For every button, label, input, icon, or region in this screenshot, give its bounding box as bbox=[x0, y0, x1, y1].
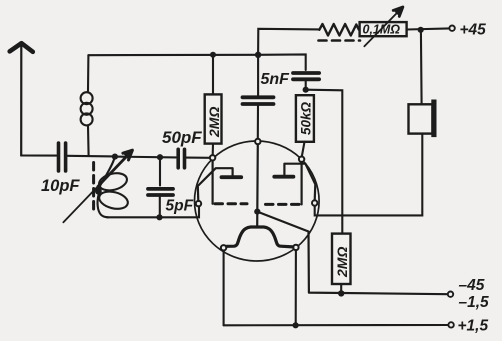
anode2 plate bbox=[274, 175, 293, 179]
terminal +1.5 bbox=[448, 322, 453, 327]
resistor 50k bbox=[296, 95, 314, 156]
node 2M/rail bbox=[338, 290, 344, 296]
svg-text:+1,5: +1,5 bbox=[458, 318, 489, 335]
node 5pF top bbox=[157, 154, 163, 160]
cathode stem bbox=[256, 212, 258, 228]
node center top bbox=[255, 52, 261, 58]
svg-text:10pF: 10pF bbox=[41, 177, 80, 195]
wire main to 50pF bbox=[115, 156, 176, 159]
capacitor 5nF bbox=[293, 73, 319, 90]
cathode lead left bbox=[223, 251, 225, 326]
tube envelope bbox=[194, 141, 319, 261]
pin g1 bbox=[210, 155, 215, 160]
resistor 0.1M zigzag bbox=[319, 24, 359, 36]
wire center vertical up bbox=[258, 29, 319, 55]
wire to speaker bbox=[420, 30, 423, 104]
grid2 lead bbox=[301, 162, 303, 204]
dashed under zigzag bbox=[319, 39, 361, 42]
wire box to +45 bbox=[407, 28, 450, 29]
anode-top wire inside bbox=[256, 144, 259, 211]
resistor 2M (right) bbox=[332, 234, 351, 284]
cathode dome bbox=[227, 227, 293, 247]
node coil top bbox=[112, 154, 118, 160]
grid2 dashes bbox=[263, 203, 299, 206]
svg-text:–1,5: –1,5 bbox=[459, 294, 490, 311]
capacitor 5pF bbox=[148, 157, 173, 217]
beam electrode diagonal bbox=[257, 212, 448, 295]
capacitor 10pF bbox=[59, 143, 66, 171]
resistor 2M (left) bbox=[205, 55, 222, 155]
svg-text:50kΩ: 50kΩ bbox=[299, 101, 314, 135]
svg-text:–45: –45 bbox=[459, 277, 485, 294]
box 0.1M bbox=[360, 22, 407, 36]
lead 2M bottom bbox=[340, 284, 342, 293]
terminal -45 bbox=[448, 292, 453, 297]
arrow (tuning) bbox=[63, 150, 132, 222]
pin anode-top bbox=[255, 139, 260, 144]
grid1 lead bbox=[212, 161, 214, 204]
variable inductor L2 bbox=[95, 157, 130, 218]
antenna bbox=[10, 43, 33, 155]
terminal +45 bbox=[449, 26, 454, 31]
core (dashed) bbox=[92, 163, 95, 214]
wire C1 to coil bbox=[68, 155, 115, 158]
node 5pF bottom bbox=[156, 214, 162, 220]
svg-text:2MΩ: 2MΩ bbox=[334, 247, 350, 278]
pin g2 bbox=[299, 157, 304, 162]
svg-text:+45: +45 bbox=[460, 22, 487, 39]
capacitor C center bbox=[243, 55, 274, 139]
pin f1 bbox=[221, 245, 226, 250]
node f2/rail bbox=[293, 322, 299, 328]
svg-text:50pF: 50pF bbox=[162, 128, 202, 147]
node top rail / R1 bbox=[210, 52, 216, 58]
wire top rail to 5nF bbox=[258, 54, 306, 70]
svg-text:2MΩ: 2MΩ bbox=[206, 107, 222, 138]
inductor L1 (RF choke) bbox=[81, 55, 93, 156]
svg-text:5pF: 5pF bbox=[166, 198, 194, 215]
capacitor 50pF bbox=[178, 149, 210, 168]
anode1 plate bbox=[222, 175, 242, 179]
cathode lead right bbox=[295, 250, 297, 325]
anode2 lead bbox=[284, 164, 315, 201]
wire coil bottom bbox=[107, 206, 199, 217]
rail +1.5 bbox=[224, 324, 449, 326]
pin f2 bbox=[293, 245, 298, 250]
node +45/speaker bbox=[418, 27, 424, 33]
speaker (earphone) bbox=[409, 100, 437, 138]
node 5nF/50k bbox=[303, 87, 309, 93]
wire antenna to C1 bbox=[21, 154, 56, 156]
wire top rail y55 bbox=[88, 54, 258, 57]
wire speaker bottom to anode2 bbox=[315, 134, 423, 216]
grid1 dashes bbox=[215, 202, 247, 205]
pin a1 bbox=[196, 201, 201, 206]
pin a2 bbox=[312, 200, 317, 205]
anode1 lead bbox=[198, 168, 233, 201]
arrow pot bbox=[364, 7, 403, 46]
wire node to right vertical bbox=[306, 90, 343, 234]
svg-text:5nF: 5nF bbox=[261, 71, 291, 88]
node center bbox=[254, 209, 260, 215]
